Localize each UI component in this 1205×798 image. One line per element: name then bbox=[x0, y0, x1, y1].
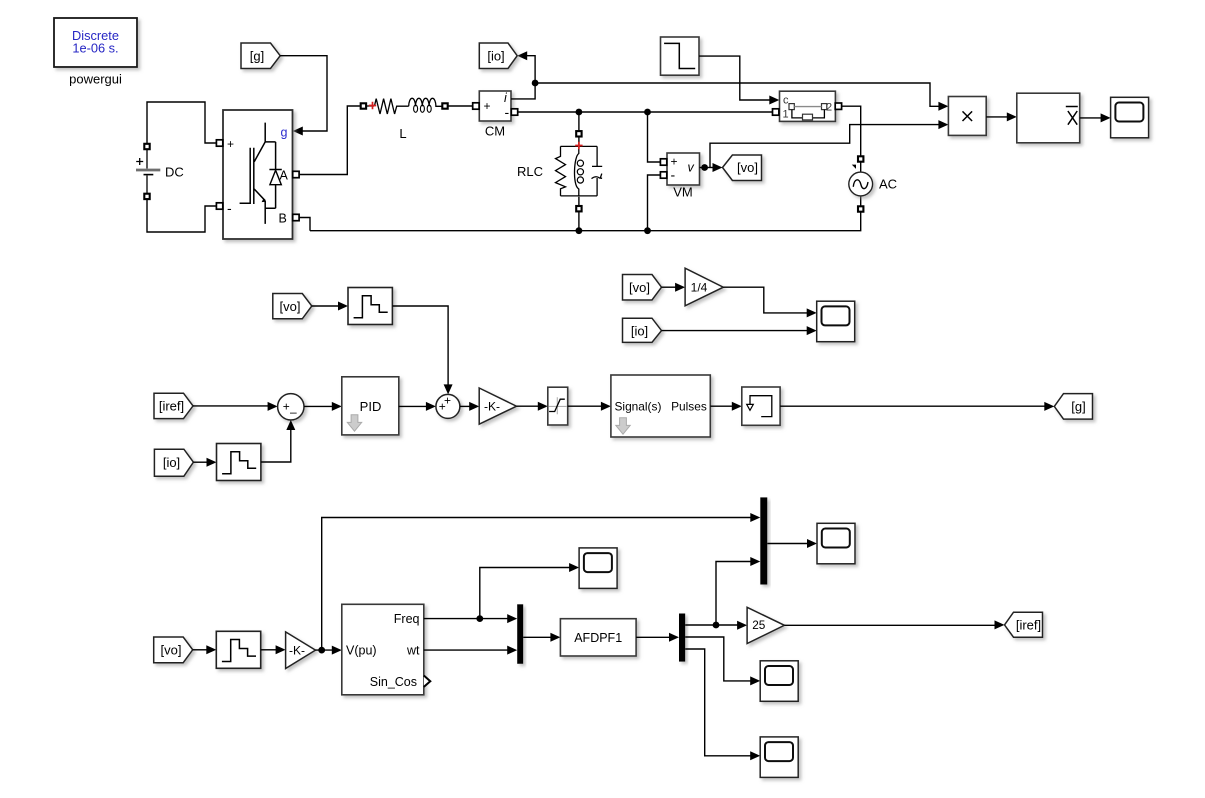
scope block out2 bbox=[760, 661, 798, 702]
wire demux junction to mux2 bottom bbox=[716, 557, 760, 625]
wire sum2 to gain bbox=[460, 402, 479, 411]
sampled signal block 1 bbox=[348, 288, 392, 325]
wire demux out1 to gain 25 bbox=[685, 621, 747, 630]
rate transition block bbox=[742, 387, 780, 425]
wire to RLC top bbox=[578, 112, 580, 130]
wire rate transition to Goto [g] bbox=[780, 402, 1054, 411]
wire DC- to bridge - bbox=[147, 200, 216, 232]
demux bar bbox=[679, 614, 685, 662]
gain -K- mid bbox=[479, 388, 516, 424]
From tag [io] scope row bbox=[623, 318, 662, 342]
svg-text:[vo]: [vo] bbox=[737, 160, 758, 175]
wire mux2 to scope6 bbox=[767, 539, 817, 548]
svg-text:[io]: [io] bbox=[487, 49, 504, 64]
svg-text:wt: wt bbox=[406, 643, 420, 657]
wire bridge B to bus bbox=[299, 218, 310, 231]
mux2 bar bbox=[760, 497, 767, 584]
svg-text:AC: AC bbox=[879, 177, 897, 192]
wire saturation to PWM bbox=[568, 402, 611, 411]
wire sum1 to PID bbox=[304, 402, 342, 411]
svg-text:c: c bbox=[783, 95, 789, 107]
scope block out3 bbox=[760, 737, 798, 778]
svg-text:DC: DC bbox=[165, 165, 184, 180]
wire product to mean bbox=[986, 112, 1017, 121]
wire PID to sum2 bbox=[399, 402, 436, 411]
svg-text:[vo]: [vo] bbox=[280, 299, 301, 314]
svg-text:[vo]: [vo] bbox=[629, 280, 650, 295]
wire AC bottom to bus bbox=[310, 212, 861, 234]
wire DC+ to bridge + bbox=[147, 102, 216, 143]
From tag [vo] row2 bbox=[273, 294, 312, 319]
svg-text:-: - bbox=[227, 200, 232, 216]
svg-text:[io]: [io] bbox=[163, 455, 180, 470]
long feedback wire to mux2 top bbox=[322, 513, 761, 650]
scope block top right bbox=[1111, 97, 1149, 138]
svg-text:+: + bbox=[227, 137, 234, 151]
gain -K- row3 bbox=[286, 632, 316, 669]
gain 25 bbox=[747, 607, 784, 643]
wire bridge A to L bbox=[299, 106, 360, 175]
breaker block bbox=[773, 91, 842, 121]
parallel RLC branch bbox=[517, 131, 602, 231]
svg-text:25: 25 bbox=[752, 618, 766, 632]
sum junction 2 bbox=[436, 394, 460, 419]
wire step to breaker c bbox=[699, 56, 779, 104]
svg-text:v: v bbox=[688, 161, 695, 175]
svg-text:Freq: Freq bbox=[394, 612, 420, 626]
wire [g] to IGBT gate bbox=[280, 56, 327, 136]
wire [vo] to sample3 bbox=[193, 645, 217, 654]
svg-text:1: 1 bbox=[783, 109, 789, 121]
Goto tag [io] bbox=[479, 43, 517, 69]
Goto tag [g] bbox=[1054, 394, 1092, 420]
IGBT half-bridge block bbox=[216, 110, 299, 239]
scope block row2 bbox=[817, 301, 855, 342]
svg-text:-K-: -K- bbox=[289, 643, 305, 657]
Goto tag [iref] bbox=[1005, 612, 1043, 637]
wire gain to PLL with junction bbox=[316, 646, 342, 655]
svg-text:-: - bbox=[505, 104, 510, 120]
From tag [vo] row3 bbox=[154, 637, 193, 663]
sum junction 1 bbox=[278, 394, 304, 420]
scope block freq bbox=[579, 548, 617, 589]
AFDPF1 block bbox=[560, 619, 636, 656]
wire to VM - bbox=[648, 175, 661, 231]
svg-text:PID: PID bbox=[360, 399, 382, 414]
product block bbox=[948, 97, 986, 136]
wire breaker 2 to AC top bbox=[842, 106, 861, 155]
svg-text:Pulses: Pulses bbox=[671, 400, 707, 414]
wire [io] to scope2 bbox=[662, 326, 817, 335]
svg-text:Sin_Cos: Sin_Cos bbox=[370, 675, 417, 689]
svg-text:-K-: -K- bbox=[484, 400, 500, 414]
svg-text:[io]: [io] bbox=[631, 323, 648, 338]
svg-text:CM: CM bbox=[485, 124, 505, 139]
sampled signal block 3 bbox=[216, 631, 260, 668]
wire AFDPF1 to demux bbox=[636, 633, 679, 642]
wire sample3 to gain bbox=[261, 645, 286, 654]
wire L to CM bbox=[448, 105, 472, 107]
scope block mux2 bbox=[817, 523, 855, 564]
Goto tag [vo] bbox=[723, 155, 762, 181]
svg-text:AFDPF1: AFDPF1 bbox=[574, 631, 622, 645]
svg-text:+: + bbox=[484, 99, 491, 113]
svg-text:[iref]: [iref] bbox=[159, 399, 184, 414]
series RL element L bbox=[361, 98, 448, 141]
svg-text:-: - bbox=[671, 167, 676, 183]
PWM generator block bbox=[611, 375, 710, 437]
wire demux out3 to scope5 bbox=[685, 649, 760, 760]
From tag [iref] bbox=[154, 393, 193, 418]
From tag [io] row2 bbox=[154, 449, 193, 476]
DC source battery bbox=[136, 144, 184, 199]
wire [vo] to sample hold bbox=[312, 302, 348, 311]
wire mux1 to AFDPF1 bbox=[523, 633, 560, 642]
svg-text:[iref]: [iref] bbox=[1016, 618, 1041, 633]
voltage measurement VM bbox=[660, 153, 699, 200]
wire CM i to product block bbox=[535, 83, 948, 111]
main wire CM- to breaker port 1 bbox=[518, 109, 772, 116]
wire [iref] to sum1 bbox=[193, 402, 278, 411]
svg-text:Signal(s): Signal(s) bbox=[615, 400, 662, 414]
wire demux out2 to scope4 bbox=[685, 637, 760, 685]
wire [io] to sample2 bbox=[193, 458, 216, 467]
sampled signal block 2 bbox=[217, 444, 261, 481]
wire sample1 to sum2 bbox=[392, 306, 452, 394]
svg-text:B: B bbox=[279, 212, 287, 226]
svg-text:–: – bbox=[290, 405, 297, 419]
svg-text:[g]: [g] bbox=[250, 49, 264, 64]
svg-text:V(pu): V(pu) bbox=[346, 643, 377, 657]
wire gain 25 to Goto [iref] bbox=[784, 620, 1004, 629]
svg-text:powergui: powergui bbox=[69, 71, 122, 86]
svg-text:RLC: RLC bbox=[517, 164, 543, 179]
svg-text:1e-06 s.: 1e-06 s. bbox=[72, 41, 118, 56]
wire to VM + bbox=[648, 112, 661, 162]
wire gain 1/4 to scope2 bbox=[723, 287, 816, 317]
saturation block bbox=[548, 387, 568, 425]
wire sample2 to sum1 bottom bbox=[261, 420, 295, 462]
mux1 bar bbox=[517, 604, 523, 664]
gain 1/4 bbox=[685, 268, 723, 306]
PLL block bbox=[342, 604, 431, 695]
svg-text:1/4: 1/4 bbox=[691, 281, 708, 295]
wire mean to scope bbox=[1080, 113, 1111, 122]
svg-text:+: + bbox=[283, 400, 290, 414]
svg-text:[vo]: [vo] bbox=[161, 643, 182, 658]
wire CM i output to junction and Goto [io] bbox=[511, 51, 538, 99]
wire wt to mux1 bbox=[424, 646, 517, 655]
wire [vo] to gain 1/4 bbox=[662, 283, 686, 292]
powergui block bbox=[54, 18, 137, 86]
svg-text:g: g bbox=[281, 126, 288, 140]
wire gain to saturation bbox=[517, 402, 548, 411]
AC source bbox=[849, 156, 897, 211]
wire Freq junction to scope3 bbox=[480, 563, 579, 619]
mean block bbox=[1017, 93, 1080, 143]
svg-text:+: + bbox=[439, 400, 446, 414]
svg-text:[g]: [g] bbox=[1071, 399, 1085, 414]
wire Freq to mux1 bbox=[424, 614, 517, 623]
svg-text:L: L bbox=[399, 126, 406, 141]
step source block bbox=[661, 37, 700, 75]
wire PWM to rate transition bbox=[710, 402, 742, 411]
svg-text:A: A bbox=[280, 169, 289, 183]
wire VM v to Goto [vo] and product bbox=[700, 120, 949, 172]
svg-text:VM: VM bbox=[673, 185, 693, 200]
current measurement CM bbox=[473, 91, 518, 139]
From tag [vo] gain row bbox=[623, 275, 662, 301]
From tag [g] bbox=[241, 43, 280, 69]
PID controller block bbox=[342, 377, 399, 435]
